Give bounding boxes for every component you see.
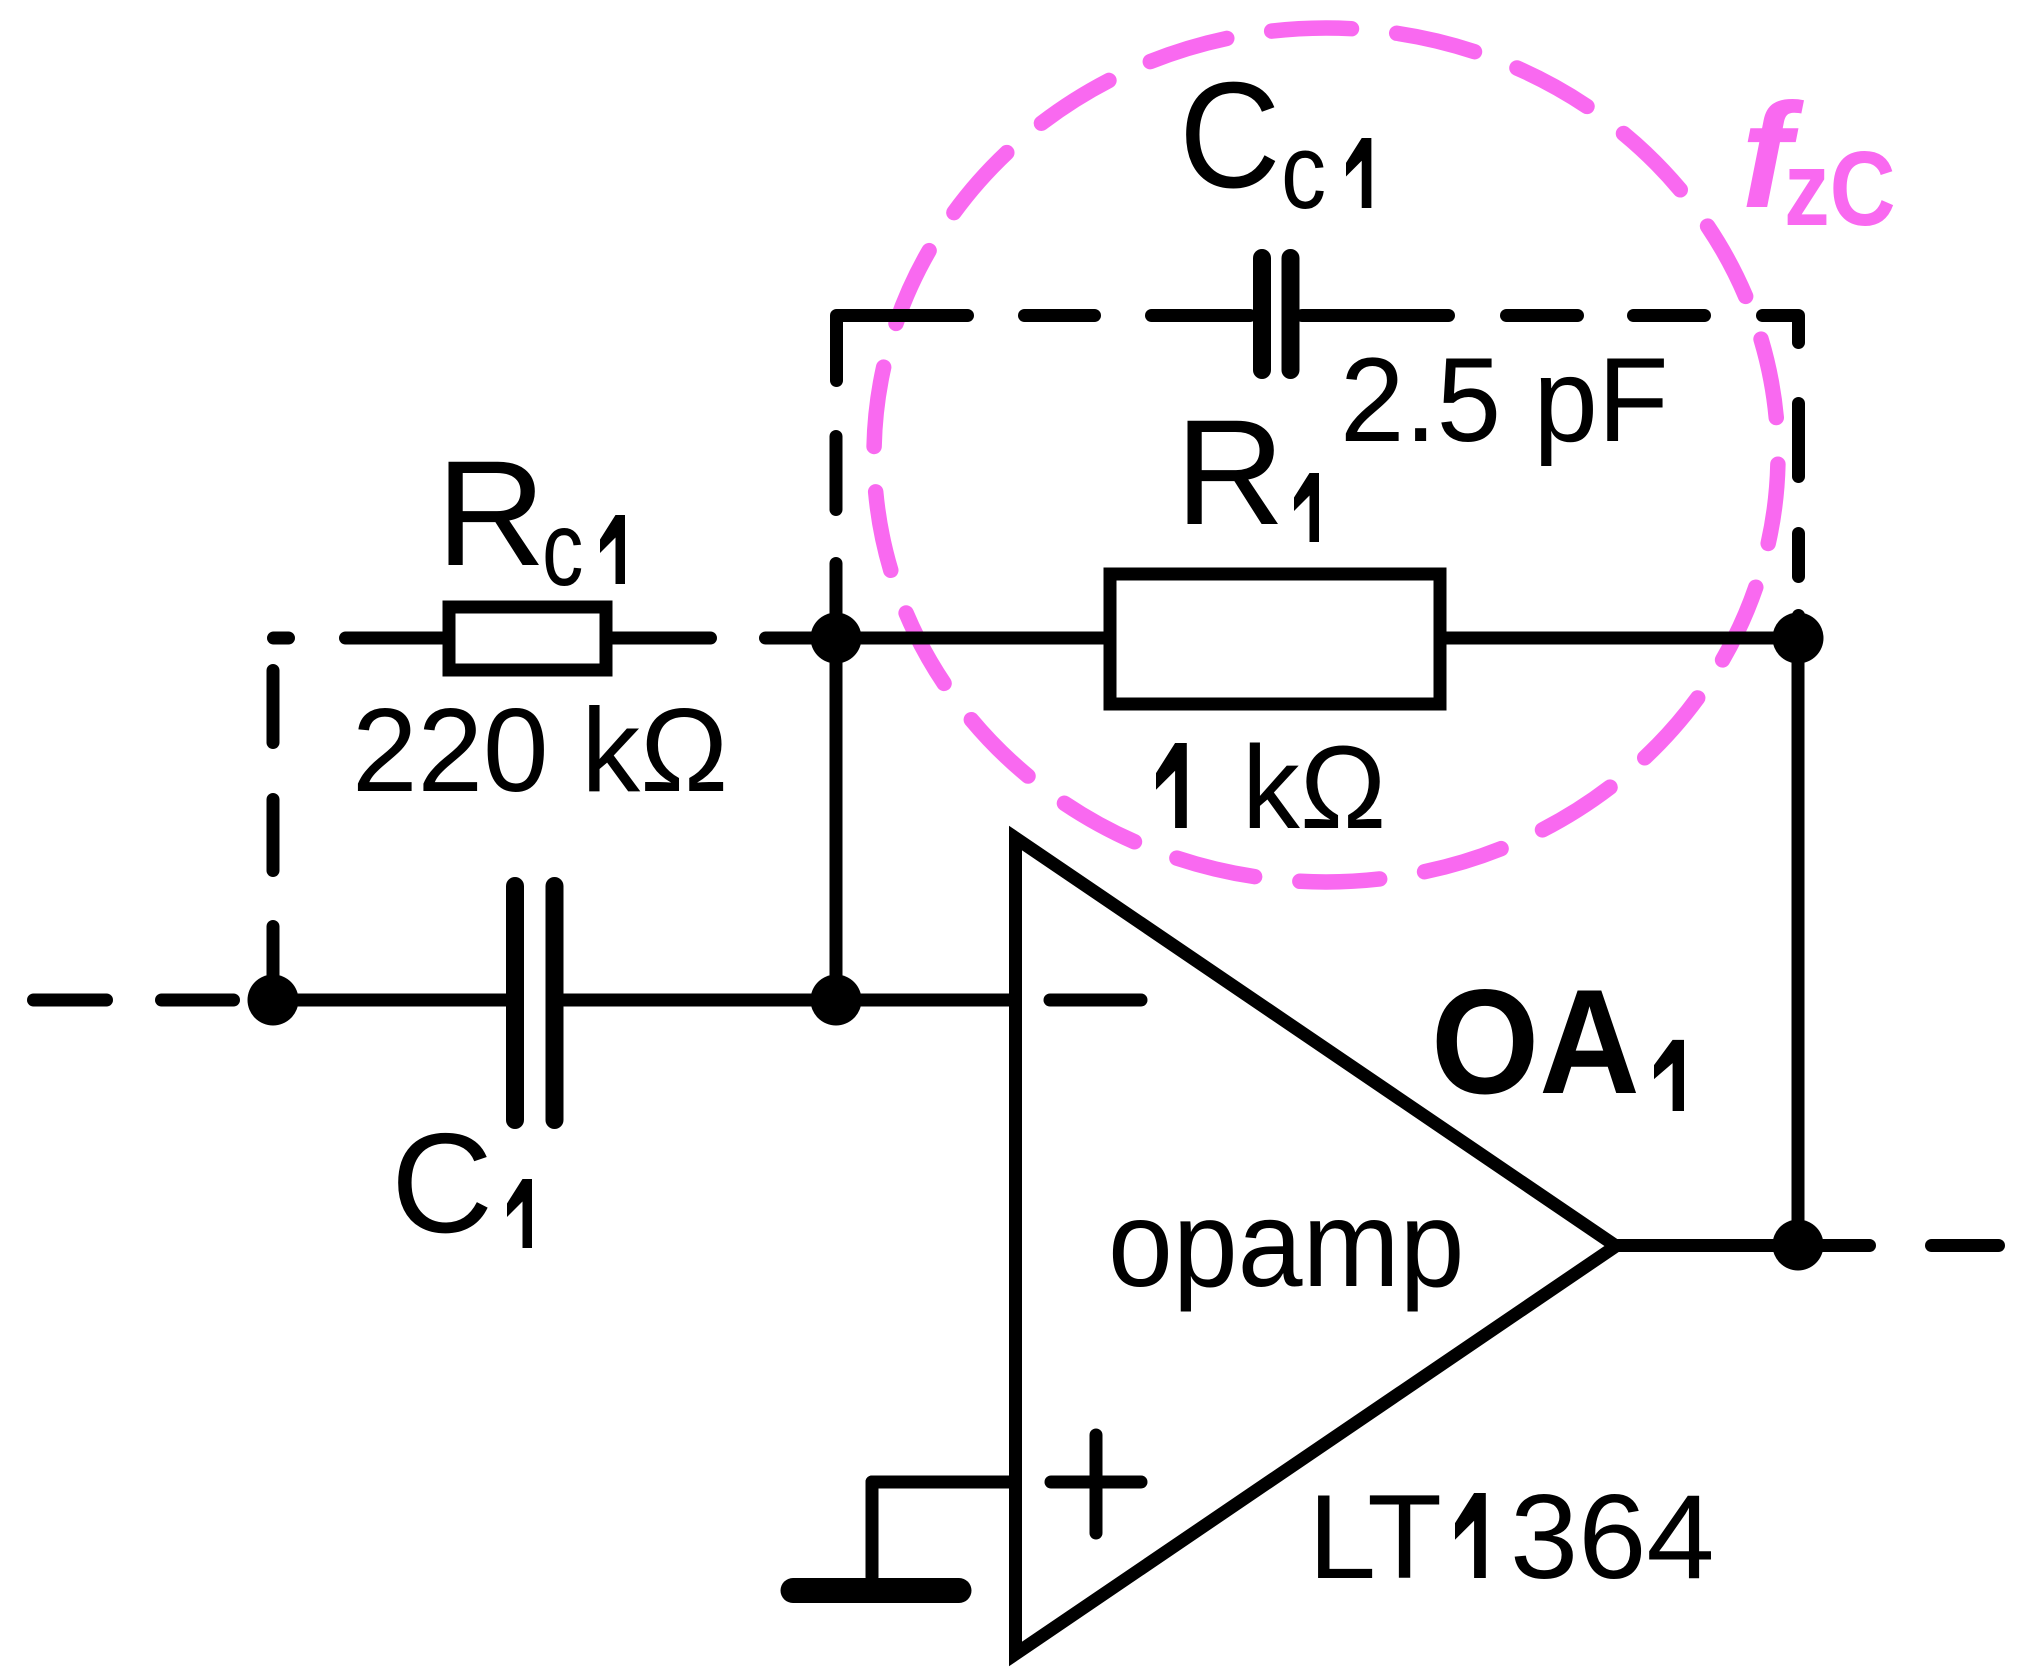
- svg-text:364: 364: [1510, 1469, 1715, 1604]
- svg-text:kΩ: kΩ: [1242, 721, 1386, 853]
- svg-text:opamp: opamp: [1108, 1176, 1464, 1313]
- svg-text:2.5 pF: 2.5 pF: [1340, 332, 1669, 466]
- svg-text:220 kΩ: 220 kΩ: [352, 684, 728, 817]
- svg-text:OA: OA: [1431, 958, 1640, 1125]
- svg-text:R: R: [436, 430, 546, 598]
- svg-text:c: c: [542, 490, 583, 608]
- svg-text:C: C: [391, 1105, 493, 1263]
- svg-text:zC: zC: [1784, 129, 1896, 248]
- svg-text:C: C: [1179, 50, 1281, 219]
- svg-text:R: R: [1175, 389, 1285, 557]
- svg-text:c: c: [1281, 111, 1326, 231]
- svg-text:LT: LT: [1308, 1469, 1442, 1604]
